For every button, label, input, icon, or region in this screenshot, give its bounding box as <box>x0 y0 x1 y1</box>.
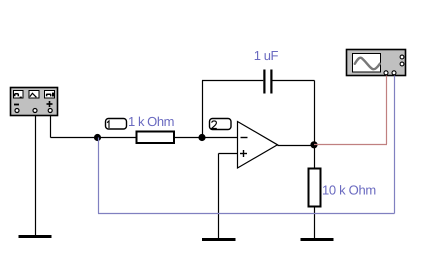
feedback wire capacitor to output node <box>273 80 315 82</box>
wire node 2 to op-amp inverting input <box>202 137 238 139</box>
wire from function generator common down to ground <box>35 116 37 237</box>
function generator plus label <box>47 101 53 107</box>
oscilloscope right terminal lower <box>400 62 404 66</box>
oscilloscope screen <box>353 54 381 73</box>
svg-text:10 k Ohm: 10 k Ohm <box>322 183 376 198</box>
svg-text:1 uF: 1 uF <box>254 48 279 63</box>
function generator square button <box>45 91 55 99</box>
wire op-amp output to output node <box>278 145 315 147</box>
wire output node down to resistor R2 <box>314 145 316 169</box>
wire non-inverting input down to ground <box>218 154 220 240</box>
wire resistor R1 to node 2 <box>174 137 202 139</box>
ground symbol bottom-left <box>19 235 52 238</box>
oscilloscope screen sine trace <box>355 58 380 70</box>
wire from generator to node 1 <box>51 137 98 139</box>
red wire output node to scope horizontal <box>314 144 387 146</box>
op-amp non-inverting input marker <box>240 150 247 157</box>
node 1 badge <box>106 119 127 130</box>
function generator minus label <box>14 104 19 106</box>
junction dot node 1 <box>94 134 101 141</box>
feedback wire vertical at node 2 up to capacitor <box>202 81 204 138</box>
junction dot output node <box>310 141 317 148</box>
wire op-amp non-inverting input to left <box>219 153 238 155</box>
function generator triangle button <box>29 91 39 99</box>
function generator common terminal <box>33 109 37 113</box>
function generator plus terminal <box>48 109 52 113</box>
capacitor C1 right plate <box>270 70 272 94</box>
function generator XFG1 body <box>11 88 58 116</box>
op-amp inverting input marker <box>241 137 248 139</box>
red wire vertical up to scope channel A <box>386 76 388 145</box>
wire node 1 to resistor R1 <box>98 137 137 139</box>
feedback wire horizontal to capacitor C1 left plate <box>202 80 263 82</box>
resistor R2 10 k Ohm body <box>309 169 321 207</box>
oscilloscope right terminal upper <box>400 55 404 59</box>
oscilloscope channel A terminal <box>384 71 388 75</box>
blue wire node 1 down <box>98 138 100 214</box>
function generator minus terminal <box>15 109 19 113</box>
capacitor C1 left plate <box>263 70 265 94</box>
ground symbol middle <box>202 238 236 241</box>
ground symbol bottom-right <box>301 238 334 241</box>
wire from function generator plus terminal down <box>50 116 52 138</box>
blue wire horizontal along bottom <box>98 213 395 215</box>
oscilloscope channel B terminal <box>392 71 396 75</box>
blue wire vertical up to scope channel B <box>394 76 396 214</box>
feedback wire vertical down to output node <box>314 81 316 146</box>
wire resistor R2 down to ground <box>314 207 316 240</box>
junction dot node 2 <box>198 134 205 141</box>
oscilloscope XSC1 body <box>347 50 406 76</box>
function generator sine button <box>14 91 24 99</box>
svg-text:1 k Ohm: 1 k Ohm <box>128 114 174 129</box>
resistor R1 1 k Ohm body <box>137 132 175 144</box>
op-amp U1 triangle <box>238 122 278 169</box>
node 2 badge <box>210 119 232 130</box>
